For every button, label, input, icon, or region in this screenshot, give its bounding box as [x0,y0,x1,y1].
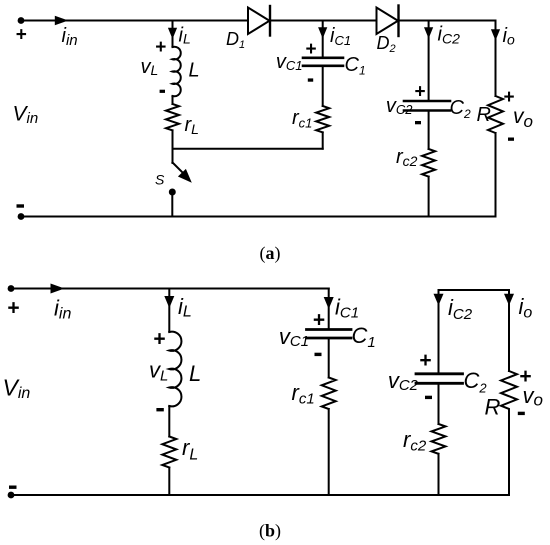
label: - output (a) [508,138,514,141]
wire: switch to bottom rail (a) [171,192,173,217]
arrow: output current io (a) [491,29,500,40]
arrow: capacitor current iC2 (a) [424,27,433,38]
wire: bottom rail circuit (a) [21,216,496,218]
svg-text:C2: C2 [464,368,488,396]
wire: bottom rail circuit (b) [11,494,509,496]
wire: C1 branch top (a) [322,21,324,57]
wire: rc1 to junction (a) [322,132,324,148]
label: - inductor (a) [160,90,165,93]
wire: C1 to rc1 (b) [328,339,330,377]
arrow: capacitor current iC1 (a) [318,27,327,38]
arrow: inductor current iL (b) [164,296,174,308]
svg-text:iL: iL [178,294,192,321]
capacitor C2 (b) [416,372,463,375]
capacitor C1 (b) [307,328,352,331]
svg-text:rc2: rc2 [396,146,418,169]
svg-text:C1: C1 [352,323,376,351]
label: - inductor (b) [156,408,163,411]
wire: R branch top (b) [508,290,510,371]
label: - C2 (a) [415,121,421,124]
svg-text:vC2: vC2 [388,368,419,394]
wire: rL to bottom rail (b) [168,468,170,496]
wire: output branch top (a) [495,21,497,97]
svg-text:iC2: iC2 [438,24,461,47]
svg-text:vC2: vC2 [386,95,413,117]
diode D2 (a) [377,8,399,35]
svg-text:vL: vL [141,56,159,78]
node: input + terminal (b) [8,285,15,292]
label: - C1 (b) [315,353,322,356]
arrow: input current iin (a) [55,16,69,26]
svg-text:+: + [155,37,166,58]
wire: C1 to rc1 (a) [322,67,324,106]
svg-text:rc2: rc2 [403,427,427,455]
wire: C2 to rc2 (a) [428,112,430,149]
resistor rc2 (b) [432,424,446,454]
svg-text:+: + [419,349,431,372]
wire: rc2 to bottom rail (b) [438,454,440,495]
svg-text:L: L [189,361,201,386]
svg-text:C1: C1 [345,54,366,78]
label: - C1 (a) [308,78,313,81]
svg-text:+: + [313,309,325,332]
wire: top rail circuit (a) segment 3 (D2 cathode to output corner) [399,20,496,22]
svg-text:C2: C2 [450,97,471,121]
wire: rc1 to bottom rail (b) [328,409,330,495]
capacitor C2 (a) [404,100,450,103]
wire: top rail circuit (b) [11,288,329,290]
wire: C2 branch top (a) [428,21,430,100]
svg-text:vC1: vC1 [276,51,303,73]
svg-text:rc1: rc1 [292,380,315,408]
svg-text:io: io [519,294,533,322]
svg-text:iin: iin [62,25,78,49]
wire: C2 branch (b) [438,290,440,373]
diode D1 (a) [248,8,270,35]
arrow: capacitor current iC1 (b) [324,297,334,309]
svg-text:L: L [189,59,200,81]
wire: top rail circuit (a) segment 1 [21,20,248,22]
svg-text:vL: vL [149,358,168,385]
svg-text:(a): (a) [260,243,281,264]
label: - input (a) [17,204,25,207]
inductor L (b) [169,332,181,407]
svg-text:vo: vo [513,105,533,131]
arrow: capacitor current iC2 (b) [434,294,444,306]
svg-text:(b): (b) [259,521,281,542]
svg-text:iL: iL [179,25,191,47]
svg-text:+: + [7,297,19,320]
inductor L (a) [173,47,181,97]
resistor rL (a) [166,104,179,130]
wire: inductor branch upper (a) [172,21,174,48]
wire: rL to switch node (a) [172,130,174,163]
node: input + terminal (a) [18,17,25,24]
wire: C2/R group top (b) [439,289,510,291]
svg-text:S: S [155,172,165,188]
arrow: output current io (b) [504,294,514,306]
svg-text:vC1: vC1 [279,324,309,350]
label: - output (b) [518,412,525,415]
svg-text:iin: iin [54,296,71,323]
arrow: inductor current iL (a) [168,28,177,39]
resistor R (a) [488,96,503,133]
wire: C1 branch (b) [328,289,330,329]
wire: junction horizontal rL-rc1 (a) [173,148,323,150]
svg-text:D1: D1 [226,29,245,51]
svg-text:Vin: Vin [13,103,39,128]
node: input - terminal (b) [8,492,15,499]
svg-text:+: + [16,25,27,46]
svg-text:iC1: iC1 [330,25,351,48]
svg-text:vo: vo [523,383,543,410]
wire: inductor to rL (b) [168,406,170,437]
wire: R to bottom rail (a) [495,133,497,217]
svg-text:D2: D2 [377,33,396,55]
wire: inductor branch upper (b) [168,289,170,333]
svg-text:iC1: iC1 [335,295,359,322]
label: - input (b) [9,486,17,489]
svg-text:Vin: Vin [3,375,31,403]
node: input - terminal (a) [18,213,25,220]
wire: top rail circuit (a) segment 2 (D1 cathode to D2 anode) [270,20,377,22]
svg-text:R: R [477,104,491,126]
svg-text:+: + [414,82,425,103]
resistor rc2 (a) [422,149,435,177]
label: - C2 (b) [425,396,432,399]
switch S blade (a) [173,163,184,174]
arrow: input current iin (b) [51,284,65,294]
svg-text:+: + [305,39,316,60]
wire: rc2 to bottom rail (a) [428,177,430,217]
svg-text:iC2: iC2 [448,295,473,323]
svg-text:R: R [485,395,501,420]
resistor rc1 (b) [322,378,336,410]
switch S bottom contact node (a) [169,189,176,196]
svg-text:+: + [153,328,165,351]
wire: C2 to rc2 (b) [438,385,440,424]
svg-text:rL: rL [185,114,199,137]
resistor R (b) [501,371,517,416]
svg-text:io: io [503,25,515,48]
svg-text:rc1: rc1 [292,107,312,131]
wire: R to bottom rail (b) [508,416,510,496]
capacitor C1 (a) [303,56,343,59]
wire: inductor to resistor rL (a) [172,96,174,104]
resistor rL (b) [162,437,176,468]
resistor rc1 (a) [316,106,329,132]
svg-text:rL: rL [182,435,198,464]
